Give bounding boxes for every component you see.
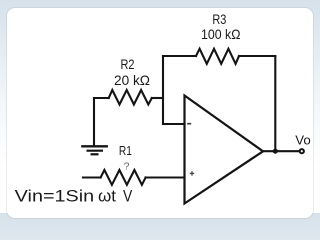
svg-text:R1: R1 <box>119 143 132 158</box>
wire feedback left vertical <box>162 56 164 124</box>
wire ground vertical <box>93 98 95 145</box>
svg-text:R2: R2 <box>121 56 135 72</box>
wire non-inverting input <box>146 176 185 178</box>
svg-text:20 kΩ: 20 kΩ <box>114 72 150 88</box>
resistor R1 <box>101 170 146 185</box>
wire R2 left segment <box>94 97 109 99</box>
terminal Vo <box>300 149 304 153</box>
op-amp plus pin mark <box>190 171 194 175</box>
svg-text:R3: R3 <box>212 11 226 27</box>
wire top feedback right segment <box>239 55 275 57</box>
svg-text:Vin=1Sin: Vin=1Sin <box>15 186 95 205</box>
svg-text:V: V <box>123 186 133 205</box>
svg-text:ωt: ωt <box>98 186 116 205</box>
svg-text:Vo: Vo <box>295 134 311 148</box>
wire inverting input <box>163 123 185 125</box>
svg-text:?: ? <box>124 161 130 173</box>
resistor R2 <box>109 90 152 105</box>
ground <box>81 146 108 154</box>
op-amp minus pin mark <box>187 123 191 125</box>
junction node feedback/output <box>273 149 278 154</box>
op-amp U1 <box>185 96 264 204</box>
wire R1 left segment <box>83 176 101 178</box>
svg-text:100 kΩ: 100 kΩ <box>201 26 241 42</box>
wire feedback right vertical <box>274 56 276 151</box>
wire top feedback left segment <box>163 55 196 57</box>
wire R2 right segment to node <box>152 97 163 99</box>
wire output <box>263 150 300 152</box>
resistor R3 <box>196 49 239 64</box>
